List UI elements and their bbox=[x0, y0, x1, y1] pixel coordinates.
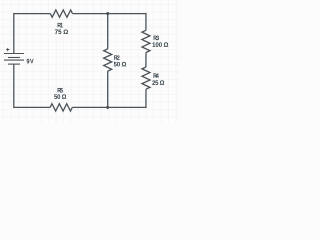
wire middle branch upper bbox=[107, 14, 109, 49]
wire bottom left horizontal bbox=[14, 106, 50, 108]
resistor R2 bbox=[104, 49, 112, 71]
battery plus sign bbox=[6, 48, 9, 51]
resistor R4 bbox=[142, 67, 150, 89]
battery long plate 2 bbox=[4, 59, 24, 61]
resistor R5 bbox=[50, 104, 72, 111]
wire top right horizontal bbox=[73, 13, 146, 15]
label R2 value 50 ohm bbox=[114, 62, 126, 67]
label R1 bbox=[58, 23, 63, 27]
label R4 value 25 ohm bbox=[152, 80, 164, 85]
label R3 bbox=[154, 36, 159, 41]
wire left upper bbox=[13, 13, 15, 54]
label 9 V bbox=[27, 59, 34, 64]
wire bottom right horizontal bbox=[72, 106, 146, 108]
label R4 bbox=[154, 73, 159, 77]
wire right lower bbox=[145, 89, 147, 108]
wire top left horizontal bbox=[14, 13, 51, 15]
wire left lower bbox=[13, 64, 15, 108]
battery short plate 1 bbox=[8, 57, 20, 59]
label R5 bbox=[58, 88, 63, 93]
wire right upper bbox=[145, 13, 147, 30]
label R1 value 75 ohm bbox=[55, 29, 68, 34]
battery short plate 2 bbox=[8, 63, 20, 65]
label R2 bbox=[114, 55, 119, 60]
junction dot bottom bbox=[106, 106, 109, 109]
resistor R3 bbox=[142, 30, 150, 52]
wire middle branch lower bbox=[107, 71, 109, 107]
junction dot top bbox=[106, 12, 109, 15]
label R5 value 50 ohm bbox=[54, 94, 66, 99]
battery long plate 1 bbox=[4, 53, 24, 55]
resistor R1 bbox=[50, 10, 72, 17]
label R3 value 100 ohm bbox=[153, 42, 169, 47]
wire right middle bbox=[145, 53, 147, 68]
battery V1 plates bbox=[4, 54, 24, 65]
